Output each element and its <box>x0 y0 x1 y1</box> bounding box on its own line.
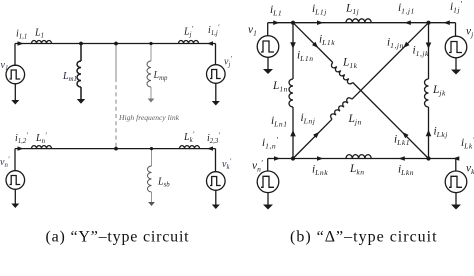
wire: bottom rail of (b) <box>268 158 456 160</box>
inductor Lj' (series, top-right) <box>179 41 199 44</box>
wire: stub down to source vn' <box>267 159 269 172</box>
inductor L1n (left side) <box>289 79 293 107</box>
current arrow iLk' (stub, points left) <box>453 156 459 161</box>
wire + ground below v1 <box>14 83 16 100</box>
node E (bottom rail / Lsb) <box>150 147 153 150</box>
svg-text:iLkn: iLkn <box>398 164 414 177</box>
svg-text:Lk′: Lk′ <box>183 130 195 145</box>
svg-text:Lkn: Lkn <box>349 163 365 176</box>
svg-text:Ljk: Ljk <box>432 84 446 97</box>
current arrow i1j' (stub, points left) <box>443 20 449 25</box>
current arrow iLn1 (left side, points up) <box>290 130 296 136</box>
inductor Lmp (shunt, gray) <box>147 44 151 99</box>
svg-text:iL1j: iL1j <box>312 3 327 16</box>
svg-text:iLnk: iLnk <box>312 164 328 177</box>
voltage source vj' (b) <box>445 36 467 58</box>
current arrow iL1 <box>273 20 279 25</box>
svg-text:v1: v1 <box>1 60 9 72</box>
ground arrow below Lmp (gray) <box>148 99 155 103</box>
current arrow iLnk (bottom rail, points right) <box>317 156 323 161</box>
current arrow i1,jn (diagonal, points down-left) <box>403 42 409 48</box>
svg-text:Lj′: Lj′ <box>183 24 193 39</box>
wire: stub down to source v1 <box>267 23 269 36</box>
voltage source vk' (a, bottom-right) <box>207 172 226 191</box>
svg-text:L1: L1 <box>34 28 44 40</box>
svg-text:vn′: vn′ <box>0 155 10 170</box>
inductor L1k (diagonal) <box>330 63 353 86</box>
current arrow i2,3' (points left) <box>207 146 213 150</box>
wire + ground below vk' <box>215 190 217 205</box>
wire + ground below vk' (b) <box>455 193 457 205</box>
node BR <box>426 156 430 160</box>
svg-text:(a) “Y”–type circuit: (a) “Y”–type circuit <box>46 229 190 246</box>
wire: diagonal TL-BR (upper segment) <box>293 23 333 63</box>
current arrow i1,1 <box>18 41 24 45</box>
wire: high frequency link line (dashed lower part) <box>115 78 117 149</box>
node B (top rail / hf link) <box>114 42 118 46</box>
current arrow i1,jk (right side, points down) <box>426 43 432 49</box>
svg-text:vj′: vj′ <box>466 24 474 39</box>
current arrow iLnj (diagonal, points up-right) <box>313 132 319 138</box>
svg-text:i1,jk: i1,jk <box>413 45 429 58</box>
svg-text:L1n: L1n <box>272 80 288 93</box>
wire: stub down to source vk' <box>455 159 457 172</box>
wire: diagonal TR-BL (upper segment) <box>352 23 429 100</box>
wire: right vertical from rail to source vj' <box>215 44 217 66</box>
wire: top rail of (b) <box>268 22 456 24</box>
wire + ground below vj' <box>215 83 217 101</box>
voltage source vj' (a, top-right) <box>207 65 226 84</box>
node TL <box>291 21 295 25</box>
inductor Lsb (shunt, gray) <box>148 149 152 202</box>
current arrow iLkj (right side, points up) <box>426 130 432 136</box>
svg-text:iL1n: iL1n <box>297 50 314 63</box>
inductor Lm1 (shunt) <box>77 44 81 100</box>
svg-text:iLk′: iLk′ <box>461 135 474 150</box>
svg-text:iL1k: iL1k <box>319 34 335 47</box>
svg-text:Ljn: Ljn <box>348 113 362 126</box>
svg-text:Lsb: Lsb <box>157 177 170 189</box>
voltage source v1 (b) <box>257 36 279 58</box>
svg-text:i1,jn: i1,jn <box>387 37 404 50</box>
svg-text:Lm1: Lm1 <box>62 71 77 83</box>
inductor L1 (series, top-left) <box>32 41 52 44</box>
svg-text:iLn1: iLn1 <box>271 115 288 128</box>
node TR <box>426 21 430 25</box>
wire: right vertical from bottom rail to source vk' <box>215 149 217 172</box>
svg-text:vk′: vk′ <box>222 157 231 172</box>
node A (top rail / Lm1) <box>79 42 83 46</box>
svg-text:L1j: L1j <box>345 3 359 16</box>
wire: bottom rail of (a) <box>15 148 216 150</box>
svg-text:Ln′: Ln′ <box>35 131 47 146</box>
node BL <box>291 156 295 160</box>
wire: diagonal TL-BR (lower segment) <box>353 83 429 159</box>
wire + ground below vn' <box>14 189 16 204</box>
voltage source v1 (a, top-left) <box>6 65 25 84</box>
svg-text:v1: v1 <box>248 24 257 37</box>
svg-text:L1k: L1k <box>342 57 358 70</box>
wire: diagonal TR-BL (lower segment) <box>293 119 332 158</box>
wire + ground below vn' (b) <box>267 193 269 205</box>
voltage source vn' (b) <box>257 171 279 193</box>
node C (top rail / Lmp) <box>149 42 152 45</box>
svg-text:vj′: vj′ <box>224 54 232 68</box>
wire: left side of square <box>292 23 294 79</box>
svg-text:vn′: vn′ <box>252 158 263 173</box>
inductor Lkn (bottom rail) <box>346 155 371 159</box>
current arrow iLk1 (diagonal, points up-left) <box>402 132 408 138</box>
inductor L1j (top rail) <box>346 19 371 23</box>
current arrow iLkn (bottom rail, points left) <box>398 156 404 161</box>
svg-text:i1j′: i1j′ <box>450 0 462 14</box>
svg-text:vk′: vk′ <box>466 161 474 176</box>
voltage source vn' (a, bottom-left) <box>6 171 25 190</box>
wire: right side of square <box>428 23 430 79</box>
ground arrow below Lm1 <box>77 99 85 104</box>
svg-text:Lmp: Lmp <box>153 70 168 82</box>
svg-text:i1,n′: i1,n′ <box>262 135 278 150</box>
wire: left vertical from rail to source v1 <box>14 44 16 67</box>
wire + ground below vj' (b) <box>455 58 457 70</box>
ground arrow below Lsb (gray) <box>148 202 155 206</box>
inductor Ljk (right side) <box>425 79 429 107</box>
wire: left vertical from bottom rail to source vn' <box>14 149 16 171</box>
current arrow i1,j1 (top rail, points left) <box>404 20 410 25</box>
inductor Ljn (diagonal) <box>329 97 352 120</box>
svg-text:iLnj: iLnj <box>301 112 316 125</box>
svg-text:i1,1: i1,1 <box>16 29 27 41</box>
inductor Lk' (series, bottom-right) <box>180 146 200 149</box>
current arrow iL1n (left side, points down) <box>290 42 296 48</box>
svg-text:iL1: iL1 <box>270 4 282 17</box>
wire: high frequency link line (solid upper part) <box>115 44 117 79</box>
inductor Ln' (series, bottom-left) <box>32 146 52 149</box>
svg-text:i1,j1: i1,j1 <box>398 2 415 15</box>
svg-text:i2,3′: i2,3′ <box>207 131 220 146</box>
wire: stub down to source vj' <box>455 23 457 36</box>
current arrow i1,j' (points left) <box>207 41 213 45</box>
wire: right side lower segment <box>428 107 430 159</box>
svg-text:iLkj: iLkj <box>434 126 448 139</box>
wire + ground below v1 (b) <box>267 57 269 69</box>
current arrow iL1k (diagonal, points down-right) <box>312 42 318 48</box>
svg-text:i1,j′: i1,j′ <box>208 23 220 38</box>
voltage source vk' (b) <box>445 171 467 193</box>
current arrow i1,n' (stub, points right) <box>274 156 280 161</box>
svg-text:High frequency link: High frequency link <box>118 113 180 122</box>
wire: top rail of (a) <box>15 43 216 45</box>
wire: left side lower segment <box>292 107 294 159</box>
current arrow i1,2' <box>18 146 24 150</box>
node D (bottom rail / hf link) <box>114 147 118 151</box>
svg-text:(b) “Δ”–type circuit: (b) “Δ”–type circuit <box>290 229 438 246</box>
current arrow iL1j (top rail) <box>317 20 323 25</box>
svg-text:i1,2′: i1,2′ <box>15 131 28 146</box>
